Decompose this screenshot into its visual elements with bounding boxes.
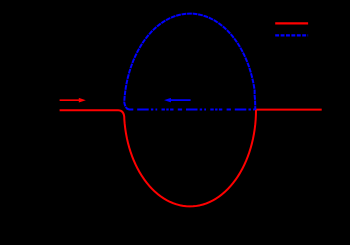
- blue trajectory: upper half of ellipse (dense dashes): [124, 14, 255, 110]
- blue arrow (pointing left): [164, 98, 191, 103]
- blue dashed chord (irregular merged dashes): [129, 109, 257, 111]
- legend: red solid sample line: [275, 22, 308, 24]
- legend: blue dashed sample line: [275, 34, 308, 36]
- red arrow (pointing right): [60, 98, 86, 103]
- red trajectory: incoming line, lower half of ellipse, outgoing line: [60, 110, 322, 207]
